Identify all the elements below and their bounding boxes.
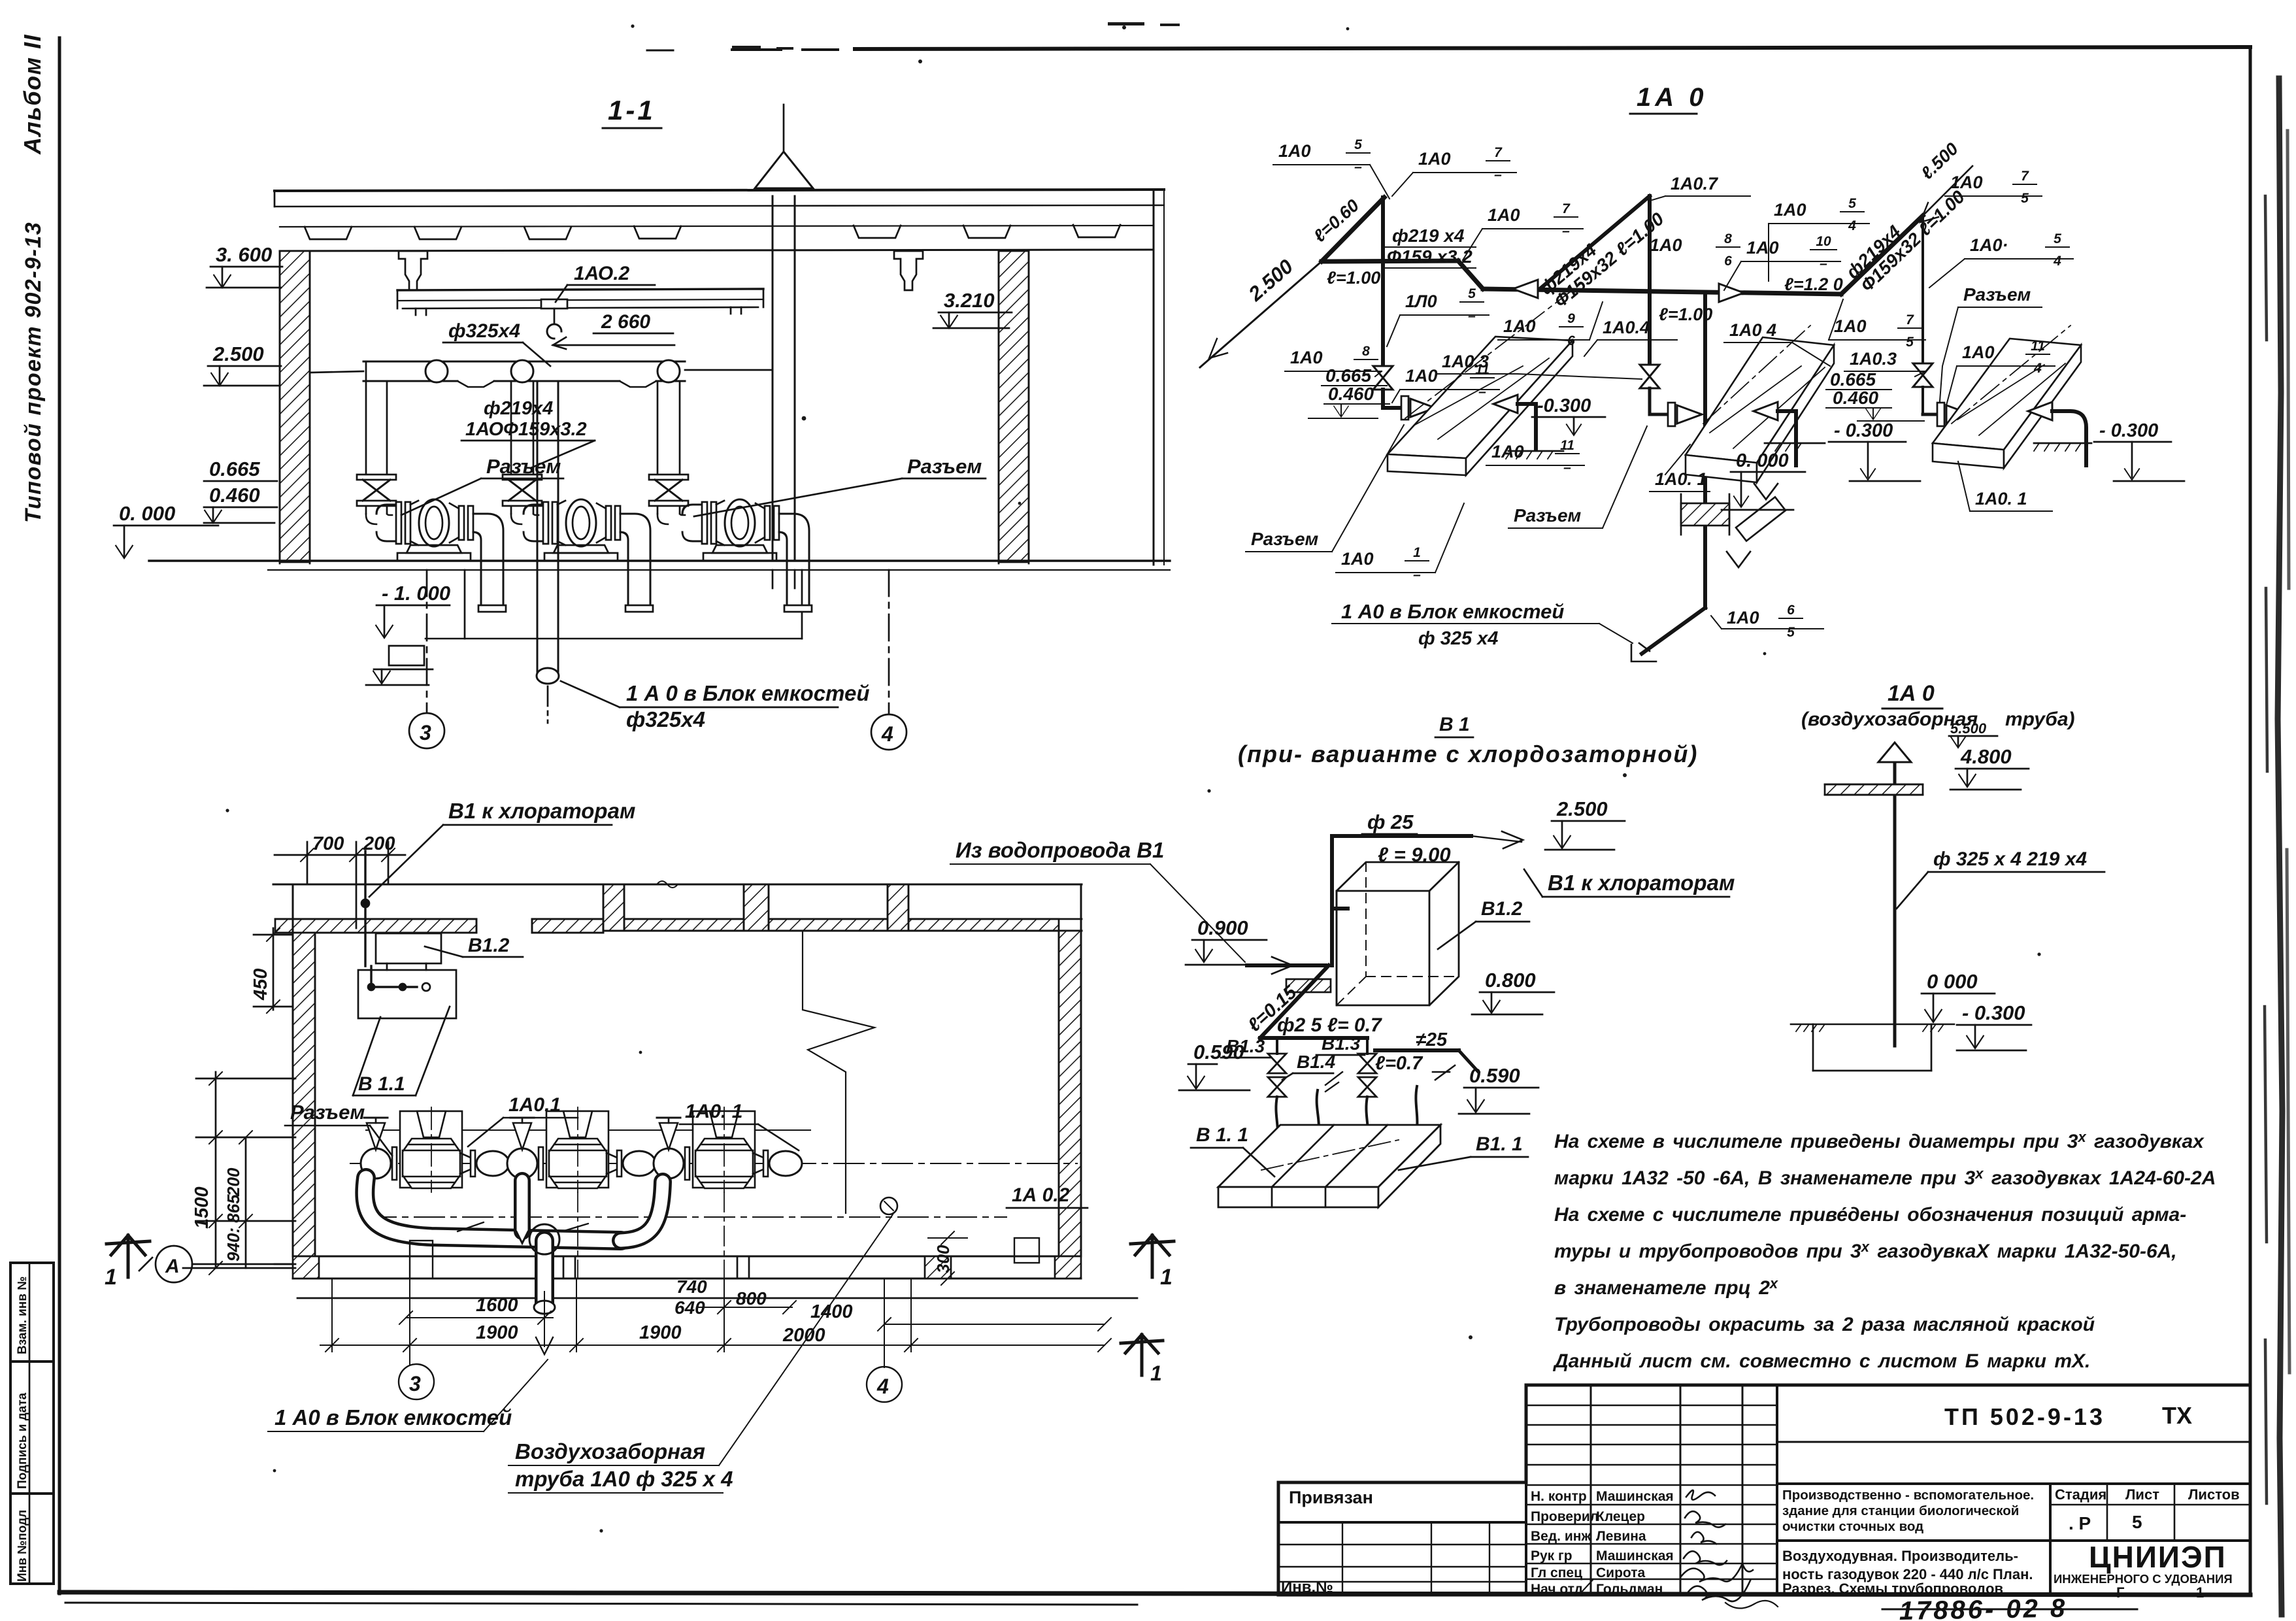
svg-text:0.590: 0.590 [1193, 1041, 1244, 1063]
svg-text:Проверил: Проверил [1531, 1509, 1599, 1524]
svg-text:1А0: 1А0 [1491, 442, 1524, 461]
svg-text:3: 3 [409, 1372, 421, 1395]
return pipe slab3 [2028, 402, 2052, 420]
svg-text:740: 740 [676, 1277, 707, 1297]
svg-text:1А0. 1: 1А0. 1 [685, 1101, 742, 1122]
svg-text:В 1. 1: В 1. 1 [1196, 1124, 1248, 1146]
svg-text:≠25: ≠25 [1416, 1029, 1448, 1050]
svg-text:1А0: 1А0 [1418, 149, 1451, 169]
title [1238, 714, 1698, 767]
svg-text:Инв №подл: Инв №подл [16, 1510, 29, 1582]
svg-text:-0.300: -0.300 [1537, 395, 1591, 416]
svg-text:Разрез. Схемы трубопроводов: Разрез. Схемы трубопроводов [1782, 1580, 2003, 1597]
section mark 1 (bottom left) [107, 1235, 150, 1277]
svg-text:Взам. инв №: Взам. инв № [16, 1277, 29, 1354]
svg-text:Вед. инж: Вед. инж [1531, 1529, 1591, 1544]
interior partition with break [803, 931, 874, 1213]
svg-text:5.500: 5.500 [1950, 720, 1987, 737]
svg-text:1А0: 1А0 [1774, 200, 1806, 220]
svg-text:В1 к хлораторам: В1 к хлораторам [448, 799, 635, 823]
long drop to tank block [1703, 294, 1707, 608]
svg-text:ф 325 х4: ф 325 х4 [1418, 628, 1498, 649]
elevation 2.500 [212, 343, 264, 365]
svg-text:–: – [1563, 460, 1571, 475]
label 1АО в Блок емкостей [626, 681, 869, 731]
texts [1281, 1402, 2240, 1601]
svg-text:0 000: 0 000 [1927, 970, 1978, 993]
right wall [1059, 931, 1081, 1256]
valve 1АО.8 [1373, 366, 1393, 390]
middle table horizontals [1526, 1405, 1777, 1406]
signatures scribbles [1579, 1490, 1778, 1609]
svg-text:7: 7 [1562, 201, 1571, 216]
hook [554, 309, 556, 324]
dims left column 1500 / 200 940 865 [191, 1167, 243, 1262]
svg-text:4: 4 [2053, 254, 2061, 269]
svg-text:5: 5 [2054, 231, 2061, 246]
svg-text:Н. контр: Н. контр [1531, 1489, 1587, 1504]
svg-text:5: 5 [1787, 625, 1795, 640]
svg-text:1А 0: 1А 0 [1888, 681, 1935, 706]
plan dimension lines bottom [268, 838, 1245, 1493]
middle signature table verticals [1525, 1385, 1527, 1595]
svg-text:1 А0 в Блок емкостей: 1 А0 в Блок емкостей [275, 1405, 512, 1429]
svg-text:Стадия: Стадия [2055, 1486, 2106, 1503]
thick wall band right [603, 919, 1059, 931]
svg-text:8: 8 [1724, 231, 1732, 246]
bottom wall [293, 1256, 1081, 1258]
elevation 3.600 [216, 243, 272, 266]
svg-text:1АО.2: 1АО.2 [574, 263, 630, 284]
air intake pipe 325x4 going down [537, 381, 539, 672]
svg-text:6: 6 [1787, 603, 1795, 618]
pipe left apex diagonal [1322, 197, 1384, 261]
svg-text:Привязан: Привязан [1289, 1488, 1373, 1507]
ground line and pit [1791, 1024, 1954, 1026]
svg-text:8: 8 [1362, 344, 1370, 359]
svg-text:ℓ=1.2 0: ℓ=1.2 0 [1784, 275, 1843, 294]
monorail hanger right [894, 251, 923, 290]
svg-text:1 А 0 в Блок емкостей: 1 А 0 в Блок емкостей [626, 681, 869, 705]
svg-text:. Р: . Р [2069, 1513, 2091, 1533]
svg-text:В1.2: В1.2 [1481, 898, 1523, 920]
svg-text:На схеме в числителе приве: На схеме в числителе приведены диаметры … [1554, 1129, 2204, 1152]
B1.2 unit against top wall [376, 933, 441, 963]
blower unit plan x3 [285, 1094, 802, 1192]
svg-text:0. 000: 0. 000 [119, 502, 175, 525]
triangle 2: diagonal and riser drop 2 [1540, 196, 1650, 289]
svg-text:–: – [1562, 224, 1570, 239]
svg-text:Разъем: Разъем [290, 1101, 365, 1124]
svg-text:ℓ=1.00: ℓ=1.00 [1659, 305, 1712, 324]
svg-text:(при- варианте с хлордозаторн: (при- варианте с хлордозаторной) [1238, 741, 1698, 767]
thin canopy wall strip left [275, 919, 476, 933]
svg-text:1: 1 [1413, 545, 1421, 560]
svg-text:Трубопроводы окрасить з: Трубопроводы окрасить за 2 раза масляной… [1554, 1314, 2095, 1335]
svg-text:0.460: 0.460 [209, 484, 260, 507]
svg-text:ф219х4: ф219х4 [484, 398, 553, 419]
svg-text:Данный лиcт см. cовместно: Данный лиcт см. cовместно с листом Б мар… [1552, 1350, 2090, 1372]
svg-text:Машинская: Машинская [1596, 1489, 1674, 1504]
floor line [149, 560, 1170, 561]
slab B1.1 [1218, 1125, 1440, 1187]
main pipe: left tail [1200, 261, 1322, 367]
svg-text:6: 6 [1724, 254, 1732, 269]
label ф325х4 219х4 [1933, 848, 2087, 870]
labels 1АО.1 + Разъем [508, 1094, 561, 1116]
svg-text:1А0.3: 1А0.3 [1850, 349, 1897, 369]
dim 700 200 (top) [312, 833, 395, 854]
blower pump 3 [682, 499, 812, 612]
svg-text:4: 4 [876, 1375, 889, 1398]
svg-text:- 1. 000: - 1. 000 [382, 582, 450, 605]
right block [1777, 1441, 2250, 1443]
return pipe slab1 [1493, 395, 1518, 413]
svg-text:4: 4 [2033, 361, 2042, 376]
-0.300 mark [1962, 1001, 2025, 1024]
svg-text:1 А0 в Блок емкостей: 1 А0 в Блок емкостей [1341, 600, 1564, 623]
svg-text:1А0: 1А0 [1405, 366, 1438, 386]
grid bubble 3 (section) [426, 570, 428, 712]
valve on riser 2 [503, 475, 542, 506]
svg-text:Сирота: Сирота [1596, 1565, 1645, 1580]
riser to top [1330, 836, 1334, 965]
svg-text:5: 5 [2021, 191, 2029, 206]
section mark 1 (right of plan) [1131, 1235, 1174, 1277]
diagonal pipe down-left [1260, 965, 1329, 1038]
svg-text:2.500: 2.500 [212, 343, 264, 365]
valve 1АО.3 (middle) [1640, 365, 1659, 388]
svg-text:туры и трубопроводов при: туры и трубопроводов при 3х газодувкаХ м… [1554, 1239, 2177, 1262]
second short pipe [1375, 1048, 1459, 1052]
svg-text:- 0.300: - 0.300 [1834, 420, 1893, 441]
return pipes and ground marks (axon) [1493, 395, 2184, 510]
svg-text:Гольдман: Гольдман [1596, 1582, 1663, 1597]
left wall (hatched) [280, 251, 310, 562]
label ф219х4 / 1АОФ159х3.2 [465, 398, 587, 440]
svg-text:2 660: 2 660 [601, 311, 650, 333]
album label (rotated, left margin) [19, 34, 46, 523]
svg-text:–: – [1478, 384, 1486, 399]
left attach table [1278, 1521, 1526, 1524]
svg-text:Рук гр: Рук гр [1531, 1548, 1572, 1563]
building right edge [1153, 190, 1155, 565]
svg-text:6: 6 [1567, 333, 1575, 348]
Из водопровода В1 [956, 838, 1164, 862]
riser drop 3 [1922, 216, 1924, 363]
roof slab [275, 190, 1164, 191]
svg-text:Воздухозаборная: Воздухозаборная [515, 1439, 705, 1463]
svg-text:1А0: 1А0 [1650, 235, 1682, 255]
svg-text:1-1: 1-1 [608, 95, 656, 125]
svg-text:1А0: 1А0 [1278, 141, 1311, 161]
right wall (hatched) [999, 251, 1029, 562]
0.000 mark (middle drop) [1736, 450, 1789, 471]
grid bubble 4 (section) [888, 570, 890, 714]
svg-text:3.210: 3.210 [944, 289, 995, 312]
svg-text:1500: 1500 [191, 1186, 212, 1229]
wall sleeve hatch on drop [1681, 503, 1729, 526]
svg-text:1900: 1900 [476, 1322, 518, 1343]
return pipe slab2 [1754, 402, 1778, 420]
svg-text:ф219 х4: ф219 х4 [1392, 226, 1465, 246]
svg-text:здание для станции биологич: здание для станции биологической [1782, 1503, 2019, 1518]
slab 1 [1388, 283, 1582, 475]
valves В1.3 [1268, 1054, 1286, 1073]
section mark 1 (near B1) [1121, 1335, 1163, 1375]
В1 к хлораторам [1548, 871, 1735, 895]
svg-text:0. 000: 0. 000 [1736, 450, 1789, 471]
elevation 0.665 / 0.460 [209, 458, 260, 507]
svg-text:0.800: 0.800 [1485, 969, 1536, 992]
label ф325х4 [448, 320, 520, 342]
0.590 marks [1193, 1041, 1244, 1063]
svg-text:4.800: 4.800 [1960, 745, 2012, 768]
svg-text:А: А [165, 1256, 180, 1277]
svg-text:1А0. 1: 1А0. 1 [1655, 469, 1707, 489]
svg-text:- 0.300: - 0.300 [1962, 1001, 2025, 1024]
sheet left border [58, 38, 61, 1594]
blower pump 1 [376, 499, 506, 612]
svg-text:–: – [1354, 159, 1362, 175]
svg-text:0.665: 0.665 [209, 458, 260, 480]
svg-text:В 1: В 1 [1439, 714, 1470, 735]
svg-text:Гл спец: Гл спец [1531, 1565, 1582, 1580]
svg-text:11: 11 [2031, 339, 2045, 354]
svg-text:Клецер: Клецер [1596, 1509, 1645, 1524]
axon labels with fractions [1246, 137, 2073, 649]
sheet bottom border [59, 1592, 2250, 1595]
svg-text:ТП 502-9-13: ТП 502-9-13 [1944, 1403, 2105, 1430]
svg-text:1А0·: 1А0· [1970, 235, 2008, 255]
svg-text:0.665: 0.665 [1325, 365, 1371, 386]
svg-text:1: 1 [1160, 1265, 1173, 1290]
valve on riser 3 [649, 475, 688, 506]
svg-text:Ф159 х3.2: Ф159 х3.2 [1387, 246, 1472, 267]
ventilation stack [772, 196, 774, 561]
svg-text:5: 5 [1354, 137, 1362, 152]
lower distribution pipe [1260, 1036, 1367, 1040]
svg-text:1А 0: 1А 0 [1637, 83, 1708, 112]
0.800 mark [1485, 969, 1536, 992]
svg-text:ЦНИИЭП: ЦНИИЭП [2089, 1540, 2227, 1574]
svg-text:Левина: Левина [1596, 1529, 1646, 1544]
axis dash-dot lines [350, 1163, 1077, 1164]
dim 450 (left) [250, 969, 271, 1001]
0.000 mark [1927, 970, 1978, 993]
svg-text:Лист: Лист [2125, 1486, 2159, 1503]
svg-text:1Л0: 1Л0 [1405, 292, 1437, 311]
svg-text:1А0 4: 1А0 4 [1729, 320, 1776, 340]
svg-text:1А0: 1А0 [1503, 316, 1536, 336]
svg-text:В1.2: В1.2 [468, 935, 510, 956]
svg-text:3: 3 [420, 721, 431, 744]
svg-text:ф325х4: ф325х4 [448, 320, 520, 342]
svg-text:ℓ=0.60: ℓ=0.60 [1310, 195, 1363, 246]
roof slab hatch [1825, 784, 1923, 795]
svg-text:1: 1 [2196, 1584, 2204, 1601]
svg-text:1: 1 [1150, 1362, 1162, 1385]
svg-text:Альбом II: Альбом II [19, 34, 46, 155]
label B1 к хлораторам (below section) [448, 799, 635, 823]
svg-text:1600: 1600 [476, 1295, 518, 1316]
svg-text:труба 1А0 ф 325 х 4: труба 1А0 ф 325 х 4 [515, 1467, 733, 1491]
svg-text:700: 700 [312, 833, 344, 854]
0.900 mark [1197, 916, 1248, 939]
paper edge right jagged [2278, 78, 2282, 1614]
svg-text:В1.3: В1.3 [1322, 1033, 1361, 1054]
vertical pipe [1893, 750, 1897, 1046]
sheet top border [855, 47, 2250, 49]
svg-text:2.500: 2.500 [1244, 255, 1297, 306]
left wall [293, 933, 315, 1256]
sheet right border [2249, 47, 2252, 1595]
svg-text:1А 0.2: 1А 0.2 [1012, 1184, 1070, 1206]
svg-text:ф 25: ф 25 [1367, 811, 1414, 833]
svg-text:5: 5 [2132, 1512, 2142, 1532]
svg-text:ℓ=1.00: ℓ=1.00 [1327, 268, 1380, 288]
svg-text:- 0.300: - 0.300 [2099, 420, 2158, 441]
svg-text:3. 600: 3. 600 [216, 243, 272, 266]
svg-text:1900: 1900 [639, 1322, 682, 1343]
svg-text:В1.4: В1.4 [1297, 1052, 1336, 1072]
plan blower units [350, 1130, 1088, 1217]
svg-text:ф 325 х 4 219 х4: ф 325 х 4 219 х4 [1933, 848, 2087, 870]
svg-text:1А0: 1А0 [1746, 238, 1779, 258]
svg-text:–: – [1820, 256, 1827, 271]
svg-text:Разъем: Разъем [1963, 284, 2031, 305]
monorail hanger left [399, 251, 427, 290]
svg-text:–: – [1468, 309, 1476, 324]
svg-text:Инв.№: Инв.№ [1281, 1579, 1333, 1596]
svg-text:В1 к хлораторам: В1 к хлораторам [1548, 871, 1735, 895]
svg-text:в знаменателе прц 2х: в знаменателе прц 2х [1554, 1275, 1778, 1299]
elevation -1.000 [382, 582, 450, 605]
svg-text:1А0: 1А0 [1290, 348, 1323, 367]
svg-text:0.460: 0.460 [1833, 388, 1878, 408]
riser drop 1 [1381, 197, 1385, 366]
svg-text:1: 1 [105, 1265, 117, 1290]
svg-text:11: 11 [1475, 362, 1489, 377]
label 1АО.2 [574, 263, 630, 284]
trolley 1АО.2 [541, 299, 567, 309]
svg-text:5: 5 [1468, 286, 1476, 301]
svg-text:7: 7 [1494, 145, 1503, 160]
2.500 mark [1556, 797, 1608, 820]
feed pipe from water line [1247, 963, 1325, 967]
slab 2 [1686, 326, 1834, 482]
svg-text:ТХ: ТХ [2162, 1402, 2192, 1429]
svg-text:1А0. 1: 1А0. 1 [1975, 489, 2027, 509]
labels below plan [275, 1405, 512, 1429]
svg-text:Из водопровода В1: Из водопровода В1 [956, 838, 1164, 862]
svg-text:9: 9 [1567, 311, 1575, 326]
elevation 0.000 [119, 502, 175, 525]
apron line below wall [297, 1297, 1137, 1299]
svg-text:7: 7 [1906, 312, 1914, 327]
plan manifold piping [365, 1178, 1039, 1314]
svg-text:Воздуходувная. Произво: Воздуходувная. Производитель- [1782, 1548, 2018, 1564]
monorail beam [397, 289, 763, 290]
svg-text:940: 865: 940: 865 [224, 1194, 243, 1262]
svg-text:1А0: 1А0 [1341, 549, 1374, 569]
svg-text:В1. 1: В1. 1 [1476, 1133, 1523, 1155]
svg-text:–: – [1413, 567, 1421, 582]
svg-text:1400: 1400 [810, 1301, 853, 1322]
air collector pipe (horizontal) [363, 361, 685, 363]
svg-text:1А0.7: 1А0.7 [1671, 174, 1719, 193]
svg-text:5: 5 [1848, 196, 1856, 211]
svg-text:1А0: 1А0 [1834, 316, 1867, 336]
svg-text:Разъем: Разъем [907, 455, 982, 478]
scheme title 1АО [1637, 83, 1708, 112]
left margin stamp table [10, 1263, 54, 1584]
svg-text:ИНЖЕНЕРНОГО С УДОВАНИЯ: ИНЖЕНЕРНОГО С УДОВАНИЯ [2054, 1572, 2233, 1586]
wall piers hatched [603, 884, 624, 931]
svg-text:450: 450 [250, 969, 271, 1001]
tank B1.2 cube [1337, 862, 1459, 1005]
svg-text:200: 200 [363, 833, 395, 854]
grid bubbles [399, 1364, 434, 1399]
svg-text:0.900: 0.900 [1197, 916, 1248, 939]
svg-text:Разъем: Разъем [1251, 529, 1319, 549]
svg-text:1А0: 1А0 [1962, 343, 1995, 362]
razem label right [907, 455, 982, 478]
svg-text:Разъем: Разъем [1514, 505, 1582, 526]
svg-text:ℓ=0.7: ℓ=0.7 [1375, 1053, 1423, 1074]
svg-text:Нач отд: Нач отд [1531, 1582, 1583, 1597]
riser elbows into pumps [366, 514, 392, 524]
ribbed ceiling panel [280, 226, 1154, 227]
svg-text:труба): труба) [2005, 709, 2075, 730]
pipe left horizontal [1322, 261, 1458, 261]
right diagonal rise [1841, 216, 1923, 294]
handwritten number bottom [1899, 1594, 2067, 1621]
svg-text:1А0: 1А0 [1727, 608, 1759, 627]
hoses down to slab [1274, 1097, 1278, 1149]
section title 1-1 [608, 95, 656, 125]
svg-text:Машинская: Машинская [1596, 1548, 1674, 1563]
blower pump 2 [524, 499, 653, 612]
svg-text:Типовой проект 902-9-13: Типовой проект 902-9-13 [21, 222, 46, 523]
svg-text:800: 800 [736, 1288, 767, 1309]
svg-text:В 1.1: В 1.1 [358, 1073, 405, 1095]
svg-text:Разъем: Разъем [486, 455, 561, 478]
scattered scan specks [225, 22, 2040, 1533]
svg-text:1А0.1: 1А0.1 [508, 1094, 561, 1116]
grid bubble A [156, 1246, 192, 1282]
dim 2 660 [601, 311, 650, 333]
svg-text:7: 7 [2021, 169, 2029, 184]
svg-text:0.590: 0.590 [1469, 1064, 1520, 1087]
svg-text:ф325х4: ф325х4 [626, 707, 705, 731]
svg-text:Производственно - вспомогатель: Производственно - вспомогательное. [1782, 1488, 2034, 1503]
svg-text:300: 300 [933, 1245, 953, 1273]
top wall outer line [273, 884, 1082, 886]
svg-text:1А0: 1А0 [1950, 173, 1983, 192]
svg-text:очистки сточных вод: очистки сточных вод [1782, 1519, 1923, 1534]
elevation 3.210 right [944, 289, 995, 312]
4.800 mark [1960, 745, 2012, 768]
below-floor channel [464, 570, 466, 639]
small equipment below floor [389, 646, 424, 665]
svg-text:5: 5 [1906, 335, 1914, 350]
svg-text:200: 200 [224, 1167, 243, 1197]
main horizontal run [1483, 289, 1841, 294]
svg-text:Г: Г [2116, 1584, 2125, 1601]
svg-text:марки 1А32 -50 -6А, В знамена: марки 1А32 -50 -6А, В знаменателе при 3х… [1554, 1165, 2216, 1189]
svg-text:–: – [1494, 167, 1502, 182]
